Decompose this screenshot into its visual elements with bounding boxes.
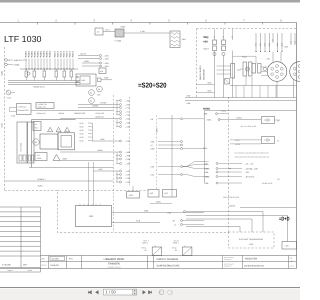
svg-text:+X72: +X72 [235, 139, 239, 142]
wire row 171 [93, 170, 116, 172]
svg-text:+S1: +S1 [37, 154, 40, 157]
svg-text:-W2x1: -W2x1 [203, 48, 210, 51]
svg-text:+W30: +W30 [120, 26, 126, 29]
display unit inner panel [61, 136, 72, 148]
svg-text:* +X500: * +X500 [114, 40, 122, 43]
fuse F2 pair [222, 40, 226, 45]
system boundary dashed left [4, 47, 6, 191]
connector feeder vertical 3 [116, 171, 118, 182]
wire bus y=85.5 [230, 85, 297, 87]
relay K2B small box [127, 192, 140, 199]
inline connector box with x [225, 79, 230, 85]
cross-reference box B with diagonal [183, 247, 192, 256]
cabinet inner bottom cells [19, 155, 22, 161]
wire -W70B [78, 104, 116, 106]
wire -W30 to right [101, 79, 112, 81]
toolbar background [0, 288, 300, 300]
svg-text:SUPERSTRUCTURE: SUPERSTRUCTURE [157, 265, 180, 268]
svg-text:-W2B·1: -W2B·1 [49, 50, 52, 58]
svg-text:SLIP RING TRANSMISSION: SLIP RING TRANSMISSION [239, 238, 264, 241]
svg-text:-W20B 3x1.5: -W20B 3x1.5 [33, 86, 45, 89]
svg-text:-W1B 1: -W1B 1 [142, 242, 148, 245]
svg-text:→X17: →X17 [125, 110, 130, 113]
nav next page icon [143, 291, 146, 294]
svg-text:-W2B·1: -W2B·1 [43, 50, 46, 58]
fan out wires group3 [183, 162, 209, 167]
motor M1 circle [89, 90, 95, 96]
vertical trunk wire [171, 115, 173, 197]
connector column X pins [116, 100, 119, 102]
svg-text:=S2B 1: =S2B 1 [37, 185, 43, 188]
toolbar top border [0, 287, 300, 289]
toolbar inner highlight [0, 287, 300, 289]
svg-text:→X6B: →X6B [125, 151, 131, 154]
svg-text:-W2BB 3x1: -W2BB 3x1 [95, 116, 104, 119]
svg-text:→X2B: →X2B [125, 121, 131, 124]
sheet frame top ruler line [0, 22, 297, 24]
svg-text:-W2BB: -W2BB [92, 105, 99, 108]
svg-text:-W2B·1: -W2B·1 [34, 50, 37, 58]
long wire y=110.5 [204, 110, 297, 112]
svg-text:W8BB: W8BB [203, 108, 210, 111]
top boxes G2 right [163, 190, 177, 198]
svg-text:-X24: -X24 [167, 211, 171, 214]
revision table grid [0, 206, 41, 208]
svg-text:-K8: -K8 [100, 70, 103, 73]
viewer top gray strip [0, 0, 300, 3]
wire row c [82, 62, 99, 64]
svg-text:-X6B: -X6B [204, 171, 209, 174]
svg-text:-X2B: -X2B [150, 147, 155, 150]
top boxes W2/G2 left [148, 190, 159, 198]
nav first page icon [88, 291, 91, 294]
svg-text:+B0: +B0 [203, 41, 208, 44]
node dots on bus [25, 68, 26, 69]
svg-text:→X3B: →X3B [125, 173, 131, 176]
svg-text:-J8: -J8 [172, 219, 175, 222]
svg-text:WINCH SUPPLY: WINCH SUPPLY [199, 64, 202, 80]
diode module box 1 [262, 117, 275, 124]
wire under boxes [150, 203, 172, 205]
svg-text:-W2B·1: -W2B·1 [31, 50, 34, 58]
relay K8 small box [99, 68, 106, 74]
wire -W17B row a [78, 55, 99, 57]
svg-text:→X21: →X21 [244, 171, 249, 174]
riser K2B [132, 186, 134, 192]
branch wire to connector group [233, 55, 257, 57]
junction dots right rows [229, 168, 230, 169]
connector feeder vertical 2 [116, 152, 118, 164]
svg-text:CBMPBCTBR: CBMPBCTBR [74, 112, 86, 115]
assembly A30 inner box [80, 76, 90, 84]
svg-text:-W1B 2: -W1B 2 [173, 242, 179, 245]
sheet frame right border [296, 23, 298, 269]
svg-text:-M3: -M3 [97, 94, 100, 97]
fuse row verticals right pair [290, 33, 292, 45]
svg-text:-W2BA: -W2BA [236, 117, 242, 120]
svg-text:-W2B: -W2B [84, 60, 89, 63]
svg-text:→X3B: →X3B [125, 181, 131, 184]
svg-text:-L 8B: -L 8B [140, 30, 145, 33]
drop wire below X21 to bus [276, 81, 278, 97]
svg-text:110-011/0.05.091-011: 110-011/0.05.091-011 [244, 265, 265, 268]
svg-text:→X20-6B→X2B: →X20-6B→X2B [244, 167, 258, 170]
sensor B2 circle left row 2 [5, 63, 8, 66]
svg-text:-W2B: -W2B [207, 82, 212, 85]
svg-text:LF25: LF25 [249, 243, 253, 246]
controller A1 small box [33, 122, 41, 131]
svg-text:* +X22B: * +X22B [219, 110, 227, 113]
svg-text:CBBL-T1R: CBBL-T1R [38, 106, 47, 109]
central enclosure bottom wall [29, 167, 113, 169]
svg-text:LTF 1030: LTF 1030 [4, 34, 42, 44]
terminal contact blocks under bus [25, 71, 28, 77]
relay K1B narrow bar [231, 64, 235, 79]
tall cabinet box 2 [28, 122, 35, 163]
wires into X21 from left [261, 66, 267, 68]
svg-text:=S20÷S20: =S20÷S20 [138, 83, 167, 90]
svg-text:+X8: +X8 [294, 41, 297, 44]
slip ring transmission dashed box [229, 232, 275, 248]
svg-text:→X9B: →X9B [125, 99, 131, 102]
svg-text:-X8B: -X8B [203, 113, 208, 116]
svg-text:+S2Bb-T1b: +S2Bb-T1b [38, 103, 47, 106]
slip ring element L-80 box with windings [170, 31, 180, 48]
svg-text:-X8: -X8 [150, 118, 153, 121]
G1 top pins [79, 204, 81, 206]
lower 3-wire bus [8, 80, 80, 82]
warning triangle [53, 155, 60, 161]
svg-text:LIEBHERR WERK: LIEBHERR WERK [104, 258, 125, 261]
wire -W17B row b [78, 58, 99, 60]
motor M2 circle [89, 98, 95, 104]
svg-text:-W1B:B 1: -W1B:B 1 [37, 178, 46, 181]
svg-text:-W2B: -W2B [98, 168, 103, 171]
svg-text:M: M [35, 141, 37, 144]
svg-text:-X22A: -X22A [206, 118, 212, 121]
svg-text:→B+X2+X2: →B+X2+X2 [244, 175, 254, 178]
right zone spine vertical [204, 111, 206, 183]
svg-text:-W30B: -W30B [14, 64, 21, 67]
svg-text:-X23: -X23 [150, 165, 154, 168]
svg-text:→X7B: →X7B [125, 106, 131, 109]
dashed boundary right vertical [228, 97, 230, 232]
svg-text:=S2B: =S2B [1, 123, 4, 128]
svg-text:→X2B: →X2B [125, 117, 131, 120]
meter circle b [222, 52, 225, 55]
svg-text:SEILWINDE: SEILWINDE [202, 68, 205, 80]
dashed column divider [113, 95, 115, 232]
svg-text:+W1: +W1 [34, 127, 38, 130]
fuse F1 pair [213, 40, 217, 45]
dashed boundary winch vertical [196, 29, 198, 98]
svg-text:→X2B: →X2B [103, 62, 109, 65]
svg-text:+S2Bx+S2x: +S2Bx+S2x [36, 112, 46, 115]
winch cross wires [217, 65, 232, 67]
extra fuse vertical [272, 33, 274, 43]
svg-text:WGB: WGB [156, 200, 161, 203]
round connector X21 [267, 62, 287, 82]
date cell boxed [50, 256, 65, 260]
wire G1 right b [112, 222, 161, 224]
svg-text:→X3B: →X3B [125, 177, 131, 180]
wire K7 to W30 with label -W71 [103, 31, 115, 33]
svg-text:17.04.95: 17.04.95 [2, 263, 11, 266]
svg-text:-X1B:4: -X1B:4 [69, 51, 72, 58]
svg-text:-X2B: -X2B [186, 102, 191, 105]
svg-text:→X2B: →X2B [103, 57, 109, 60]
tall cabinet box 1 with rotated text [17, 122, 27, 163]
svg-text:-W8B 2x1: -W8B 2x1 [14, 59, 22, 62]
dashed top segment to boxes [58, 190, 149, 192]
svg-text:-B7: -B7 [144, 249, 147, 252]
warning triangle row (3 pcs) [48, 127, 53, 132]
svg-text:+G2: +G2 [164, 192, 168, 195]
svg-text:31.3.95: 31.3.95 [52, 258, 60, 261]
svg-text:→X9C: →X9C [125, 103, 131, 106]
svg-text:x: x [9, 60, 10, 62]
svg-text:→B+B2/+D7B: →B+B2/+D7B [261, 182, 273, 185]
svg-text:-X67: -X67 [204, 162, 208, 165]
svg-text:→X2B: →X2B [103, 54, 109, 57]
svg-text:04.05.92: 04.05.92 [51, 264, 60, 267]
cross-reference box A with diagonal [152, 247, 161, 256]
wire bus y=100.5 [185, 100, 297, 102]
display unit box right [58, 133, 75, 150]
next view icon (grayed) [168, 290, 173, 295]
fan merge vertical [92, 123, 94, 141]
transmitter left stubs [10, 107, 17, 109]
svg-text:-X6B0: -X6B0 [204, 167, 209, 170]
frame column ticks and numbers [37, 23, 39, 25]
svg-text:+X7B: +X7B [235, 143, 240, 146]
svg-text:→X6B: →X6B [125, 154, 131, 157]
wire row 152 [60, 151, 116, 153]
svg-text:CIRCUIT DIAGRAM: CIRCUIT DIAGRAM [157, 258, 179, 261]
contactor bar 1 [243, 62, 247, 76]
svg-text:=BQ: =BQ [203, 36, 208, 39]
diode module box 2 [262, 137, 275, 144]
pin circle small a [246, 67, 250, 71]
assembly A30 outer box [76, 74, 96, 86]
terminal rect pair left of X21 [252, 64, 256, 74]
page number field [104, 289, 137, 295]
svg-text:+X8: +X8 [290, 41, 293, 44]
contactor bar 2 [249, 62, 253, 76]
svg-text:+W1B: +W1B [37, 157, 43, 160]
svg-text:-W2B: -W2B [100, 138, 105, 141]
display unit motor circle [33, 139, 39, 145]
svg-text:-W2B: -W2B [207, 90, 212, 93]
transmitter box S10 [17, 104, 32, 115]
svg-text:-W2B·1: -W2B·1 [25, 50, 28, 58]
svg-text:→X1B: →X1B [125, 113, 131, 116]
svg-text:-W2B·1: -W2B·1 [40, 50, 43, 58]
nav last page icon [149, 291, 152, 294]
bus stubs [235, 86, 237, 98]
long wire below enclosure [5, 180, 113, 182]
svg-text:-W71: -W71 [105, 29, 110, 32]
dashed boundary top horizontal [197, 28, 297, 30]
long wire to slip element [124, 32, 170, 34]
svg-text:-X1B:4: -X1B:4 [72, 51, 75, 58]
svg-text:-X21: -X21 [266, 58, 270, 61]
horizontal bus line y=69 [20, 68, 78, 70]
svg-text:+E2: +E2 [272, 39, 275, 42]
note box right [282, 242, 297, 250]
generator G1 box [76, 206, 112, 227]
spinner buttons [133, 289, 137, 295]
svg-text:-X2B: -X2B [150, 140, 155, 143]
control box T1b label [36, 103, 54, 109]
svg-text:-A1: -A1 [34, 123, 37, 126]
risers from G1 [88, 162, 90, 206]
svg-text:+S1W BBX: +S1W BBX [20, 142, 23, 152]
shaded connector box W30 [115, 29, 124, 37]
svg-text:-X7: -X7 [150, 144, 153, 147]
svg-text:-W7BB: -W7BB [100, 102, 107, 105]
svg-text:-W2BB: -W2BB [97, 149, 103, 152]
svg-text:EHINGEN: EHINGEN [108, 262, 120, 265]
svg-text:=G1: =G1 [89, 215, 94, 218]
wire after diode 1 [275, 119, 281, 121]
wire -W20B [78, 107, 116, 109]
svg-text:-W2B·1: -W2B·1 [28, 50, 31, 58]
motor M3 circle [97, 86, 103, 92]
svg-text:-K2B: -K2B [129, 194, 134, 197]
aux box right of assembly [98, 78, 102, 82]
riser into right small box [186, 216, 288, 242]
svg-text:-W2Bx1: -W2Bx1 [58, 112, 64, 115]
svg-text:→X2B: →X2B [125, 162, 131, 165]
svg-text:=S2B: =S2B [1, 70, 4, 76]
connector feeder vertical 4 [116, 119, 118, 127]
central enclosure left wall [31, 120, 33, 168]
wire drops from labels to bus [25, 59, 27, 70]
connector feeder vertical 1 [116, 101, 118, 115]
display unit box left [40, 134, 58, 149]
svg-text:-W2B·1: -W2B·1 [37, 50, 40, 58]
svg-text:-X1B:4: -X1B:4 [54, 51, 57, 58]
svg-text:Datum: Datum [8, 269, 14, 272]
pressure sensor circle with wire [6, 90, 11, 95]
svg-text:-X6B2: -X6B2 [204, 175, 209, 178]
svg-text:1 / 50: 1 / 50 [106, 290, 117, 295]
wire -W2B from unit to right [60, 160, 113, 162]
svg-text:→X23: →X23 [125, 140, 130, 143]
relay coil circle K1 [27, 72, 30, 75]
dashed mid divider [156, 115, 158, 190]
svg-text:=D+D: =D+D [279, 216, 290, 222]
wire G1 right a [112, 212, 205, 214]
svg-text:+X22: +X22 [242, 56, 246, 59]
svg-text:-X1B:4: -X1B:4 [60, 51, 63, 58]
svg-text:-WB7B: -WB7B [229, 204, 236, 207]
prev view icon (grayed) [159, 290, 164, 295]
svg-text:DATA STRUCTURE: DATA STRUCTURE [223, 196, 240, 199]
horizontal wire under T1b [31, 110, 113, 112]
wire row 141 [93, 140, 117, 142]
svg-text:-W17B: -W17B [80, 53, 87, 56]
svg-text:-X1B:4: -X1B:4 [66, 51, 69, 58]
svg-text:-X1B:4: -X1B:4 [63, 51, 66, 58]
wire row1 to cluster [22, 59, 27, 61]
svg-text:-B7: -B7 [175, 249, 178, 252]
svg-text:-W2B: -W2B [62, 158, 67, 161]
svg-text:→X2B: →X2B [125, 125, 131, 128]
dashed divider 2 [129, 97, 131, 186]
warning label box S1 [35, 153, 47, 161]
wire row d [82, 65, 99, 67]
svg-text:-W2: -W2 [150, 192, 153, 195]
svg-text:REGISTER: REGISTER [245, 258, 257, 261]
drop wire below X22 to bus [293, 79, 295, 98]
svg-text:Name: Name [28, 269, 33, 272]
nav prev page icon [96, 291, 99, 294]
svg-text:VLP: VLP [23, 263, 28, 266]
relay K7 box with pins 1 3 [95, 28, 103, 35]
winch drop wires [214, 51, 216, 98]
svg-text:-W3B: -W3B [104, 77, 109, 80]
title block verticals [48, 256, 50, 269]
svg-text:-X6B: -X6B [204, 182, 209, 185]
svg-text:-W1B: -W1B [156, 128, 159, 133]
round connector X22 (clipped by edge) [290, 62, 310, 82]
svg-text:+S1B+S13: +S1B+S13 [18, 105, 27, 108]
fuse row verticals with rotated labels [255, 33, 257, 52]
central enclosure top wall [32, 119, 76, 121]
svg-text:→X3B: →X3B [125, 170, 131, 173]
wire -W20B 3x1 to col [60, 118, 116, 120]
fuse feed stubs from dashed boundary [214, 29, 216, 41]
dashed subsystem boundary path [5, 191, 229, 233]
svg-text:-X24: -X24 [150, 173, 154, 176]
svg-text:→A5 →A9: →A5 →A9 [244, 162, 253, 165]
svg-text:+S2B+S2B: +S2B+S2B [95, 112, 105, 115]
svg-text:→X2B: →X2B [103, 65, 109, 68]
meter circle a [213, 52, 216, 55]
svg-text:-V2: -V2 [277, 140, 280, 143]
svg-text:-X1B:4: -X1B:4 [57, 51, 60, 58]
assembly pins [77, 76, 79, 78]
svg-text:+P5 +P6 +P2B +P2B: +P5 +P6 +P2B +P2B [240, 125, 257, 128]
sensor B1 circle left row 1 [5, 59, 8, 62]
svg-text:-W2B·1: -W2B·1 [46, 50, 49, 58]
title block outer lines [41, 255, 297, 257]
svg-text:-X2B: -X2B [186, 95, 191, 98]
pin circle small b [263, 67, 266, 70]
svg-text:→X2B: →X2B [125, 158, 131, 161]
wire bus y=97.5 [185, 97, 297, 99]
svg-text:Rev: Rev [42, 257, 45, 260]
stair wires to slip ring box [186, 212, 263, 233]
wires into X21 from top [272, 52, 274, 62]
